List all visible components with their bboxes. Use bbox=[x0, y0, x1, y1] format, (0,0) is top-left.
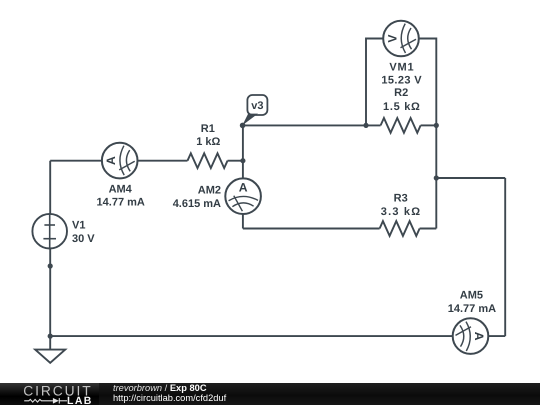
ammeter AM4 bbox=[102, 143, 138, 179]
voltmeter VM1 bbox=[383, 21, 419, 57]
svg-text:V: V bbox=[386, 34, 400, 43]
svg-text:3.3 kΩ: 3.3 kΩ bbox=[381, 206, 422, 218]
wire v3 row from node to R2 left bbox=[243, 124, 381, 126]
svg-text:1.5 kΩ: 1.5 kΩ bbox=[383, 101, 421, 113]
wire top-left horizontal from left rail to R1 bbox=[50, 160, 187, 162]
svg-text:4.615 mA: 4.615 mA bbox=[173, 198, 221, 210]
svg-text:R3: R3 bbox=[394, 193, 408, 205]
junction node R3 branch bbox=[434, 175, 439, 180]
wire R2 right lead bbox=[421, 124, 437, 126]
wire R1 right lead to node column bbox=[228, 160, 243, 162]
ground triangle bbox=[35, 350, 65, 363]
svg-text:AM4: AM4 bbox=[109, 184, 133, 196]
svg-text:30 V: 30 V bbox=[72, 233, 95, 245]
wire left vertical rail through V1 bbox=[49, 161, 51, 336]
junction node ground bbox=[48, 334, 53, 339]
voltage source V1 bbox=[32, 214, 67, 249]
resistor R2 zigzag bbox=[381, 118, 421, 133]
wire VM1 right loop bbox=[401, 39, 436, 126]
svg-text:LAB: LAB bbox=[67, 395, 93, 405]
svg-text:R2: R2 bbox=[394, 87, 408, 99]
svg-text:V1: V1 bbox=[72, 220, 85, 232]
wire R3 right lead to corner bbox=[420, 228, 437, 230]
wire AM2 vertical column from v3 node down to R3 row bbox=[242, 125, 244, 228]
svg-text:A: A bbox=[239, 181, 248, 195]
wire bottom rail through AM5 bbox=[50, 335, 505, 337]
footer credit line bbox=[113, 384, 226, 403]
svg-text:1 kΩ: 1 kΩ bbox=[196, 136, 220, 148]
junction node right of R1 bbox=[240, 158, 245, 163]
node flag v3 bbox=[242, 95, 267, 125]
svg-text:AM2: AM2 bbox=[198, 185, 221, 197]
wire middle vertical x=436 from R2 row down to R3 corner bbox=[435, 125, 437, 228]
ammeter AM2 bbox=[225, 178, 261, 214]
svg-text:VM1: VM1 bbox=[389, 62, 414, 74]
wire VM1 left loop bbox=[366, 39, 401, 126]
junction node VM1 left / R2 left bbox=[363, 123, 368, 128]
resistor R1 zigzag bbox=[188, 153, 228, 168]
junction node below V1 bbox=[48, 263, 53, 268]
wire branch from node at R3 top to right vertical bbox=[436, 177, 505, 179]
junction node v3 bbox=[240, 123, 246, 129]
svg-text:v3: v3 bbox=[251, 100, 263, 112]
wire right vertical from bottom corner up to R3 branch bbox=[504, 178, 506, 336]
wire R3 row from AM2 column to R3 left bbox=[243, 228, 380, 230]
footer bar bbox=[0, 383, 540, 405]
ground stub bbox=[49, 336, 51, 350]
svg-text:A: A bbox=[472, 332, 486, 341]
svg-text:A: A bbox=[104, 156, 118, 165]
CircuitLab logo bbox=[0, 383, 110, 405]
resistor R3 zigzag bbox=[380, 221, 420, 236]
svg-text:14.77 mA: 14.77 mA bbox=[97, 197, 145, 209]
svg-text:15.23 V: 15.23 V bbox=[381, 75, 422, 87]
junction node VM1 right / R2 right bbox=[434, 123, 439, 128]
ammeter AM5 bbox=[453, 318, 489, 354]
svg-text:AM5: AM5 bbox=[460, 289, 483, 301]
svg-text:R1: R1 bbox=[201, 123, 215, 135]
svg-text:14.77 mA: 14.77 mA bbox=[448, 303, 496, 315]
